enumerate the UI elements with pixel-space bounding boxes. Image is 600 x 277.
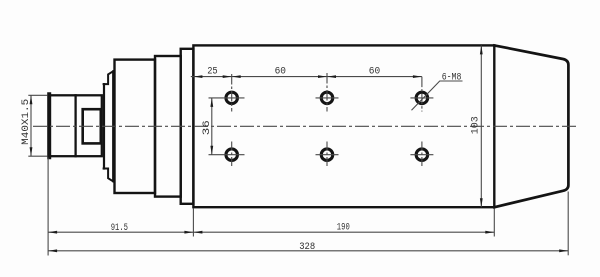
section C flange: [181, 49, 194, 204]
M40 dim: [30, 95, 33, 104]
hole 2 horizontal centermark: [316, 97, 339, 99]
hole 5 horizontal centermark: [316, 154, 339, 156]
M8 hole 3 top row: [416, 92, 428, 104]
arrows: [30, 45, 569, 252]
hole 6 vertical centermark: [421, 142, 423, 168]
103 dim line: [480, 45, 482, 207]
svg-text:36: 36: [202, 120, 213, 135]
M8 hole 6 bottom row: [416, 149, 428, 161]
M40 extension lines: [28, 94, 47, 96]
front housing A: [115, 60, 156, 193]
60 first: [232, 75, 241, 78]
190 dim: [193, 231, 202, 234]
svg-text:6-M8: 6-M8: [442, 73, 462, 84]
nut thick left edge: [47, 94, 51, 157]
hole 3 horizontal centermark: [410, 97, 433, 99]
dimension texts: [21, 66, 481, 252]
hole 2 vertical centermark / extension: [326, 73, 328, 112]
M8 hole 1 top row: [226, 92, 238, 104]
M40 dim line: [30, 95, 32, 156]
hole 6 horizontal centermark: [410, 154, 433, 156]
91.5 dim: [48, 231, 57, 234]
top dim line 25/60/60: [191, 76, 422, 78]
svg-text:60: 60: [369, 66, 380, 77]
section B: [155, 56, 181, 197]
36 dim line: [211, 98, 213, 155]
103 dim: [480, 45, 483, 54]
dim line 328: [48, 250, 568, 252]
svg-text:25: 25: [207, 66, 218, 77]
svg-text:103: 103: [471, 116, 482, 134]
36 dim: [210, 98, 213, 107]
main block: [193, 45, 494, 207]
slinger right edge: [112, 71, 114, 181]
hole 4 vertical centermark: [231, 142, 233, 168]
hole 3 vertical centermark / extension: [421, 77, 423, 112]
dim line 91.5 / 190: [48, 231, 494, 233]
hole 4 horizontal centermark: [209, 154, 245, 156]
nut right edge: [74, 95, 76, 156]
slinger left edge: [103, 84, 105, 168]
svg-text:328: 328: [299, 242, 315, 253]
328 dim: [48, 249, 57, 252]
thin lines: [28, 45, 576, 255]
hole 1 vertical centermark / extension: [231, 74, 233, 112]
svg-text:190: 190: [337, 222, 350, 233]
hole 5 vertical centermark: [326, 142, 328, 168]
svg-text:60: 60: [275, 66, 286, 77]
svg-text:M40X1.5: M40X1.5: [21, 99, 32, 145]
main centerline: [33, 125, 576, 127]
rear cone: [494, 45, 568, 207]
M8 hole 5 bottom row: [321, 149, 333, 161]
slinger bottom profile: [104, 169, 114, 182]
svg-text:91.5: 91.5: [111, 223, 128, 234]
6-M8 leader: [412, 81, 463, 110]
top 25: [193, 75, 202, 78]
collet nut + nose outer rect: [49, 95, 102, 156]
bottom extension lines: [47, 158, 49, 256]
60 second: [327, 75, 336, 78]
slinger top profile: [104, 71, 114, 84]
inner spacer rect: [83, 109, 101, 143]
hole 1 horizontal centermark: [209, 97, 245, 99]
M8 hole 2 top row: [321, 92, 333, 104]
M8 hole 4 bottom row: [226, 149, 238, 161]
